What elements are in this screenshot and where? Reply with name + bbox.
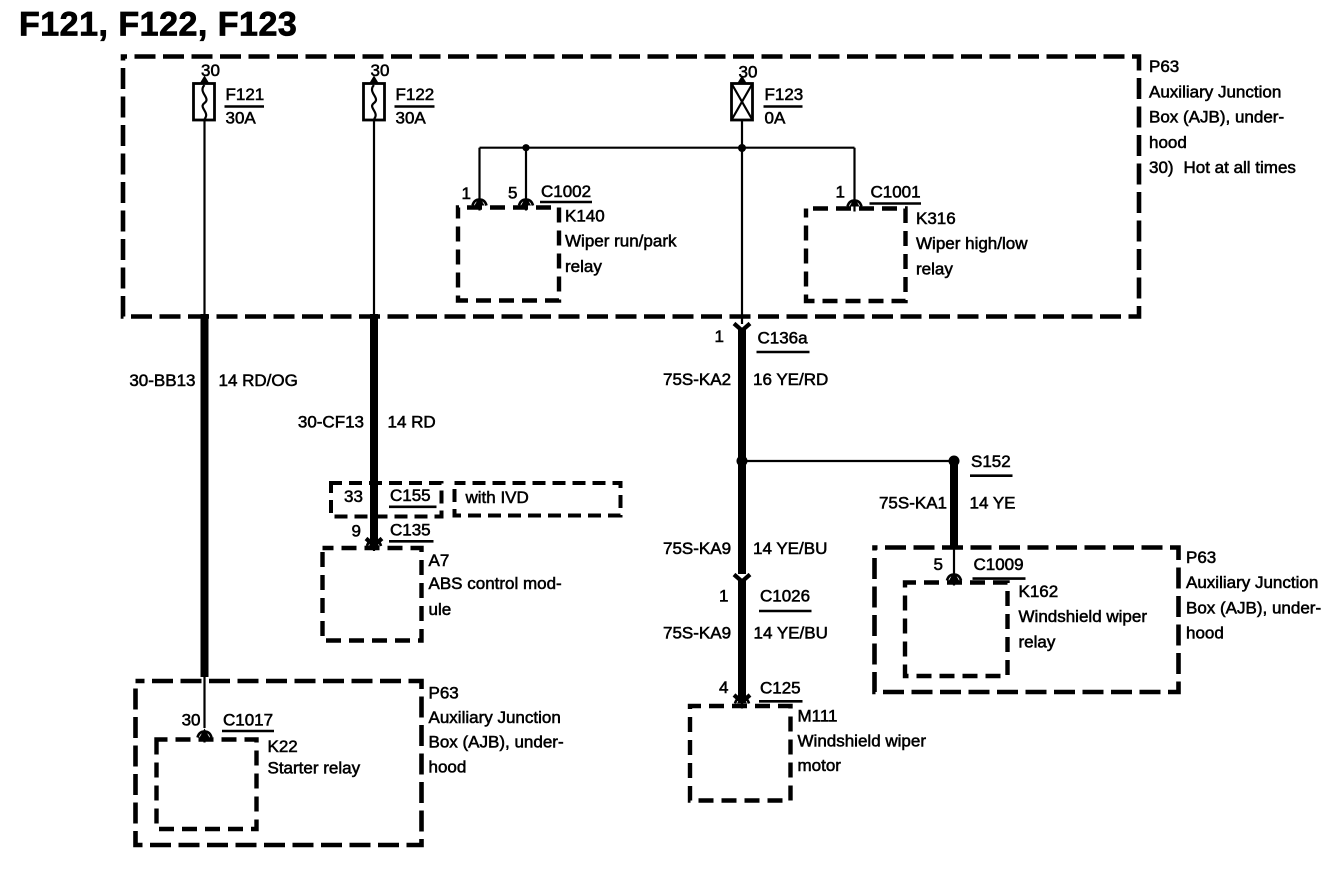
underline C1026 [759, 610, 812, 613]
svg-text:P63: P63 [429, 683, 459, 702]
fuse F122 [364, 84, 385, 121]
note P63 (bottom left) [429, 683, 564, 776]
svg-text:C1017: C1017 [223, 711, 273, 730]
module A7 box [323, 548, 422, 641]
underline C155 [389, 505, 437, 508]
underline F122 [395, 105, 435, 108]
svg-text:75S-KA9: 75S-KA9 [663, 539, 731, 558]
wire F122 to AJB bottom edge (thin) [373, 120, 375, 316]
connector C125 pin 4 symbol [734, 695, 750, 702]
wire 75S-KA9 thick lower [738, 580, 746, 698]
svg-text:75S-KA1: 75S-KA1 [879, 493, 947, 512]
junction dot at F123 column [738, 144, 746, 152]
connector C155 box [331, 483, 442, 517]
svg-text:5: 5 [508, 184, 517, 203]
svg-text:30-CF13: 30-CF13 [298, 413, 364, 432]
underline C1001 [870, 202, 922, 205]
wire to C1002 pin 5 [525, 148, 527, 200]
svg-text:Hot at all times: Hot at all times [1184, 158, 1296, 177]
wire bus horizontal inside AJB [480, 147, 855, 149]
svg-text:Wiper high/low: Wiper high/low [916, 234, 1028, 253]
svg-text:A7: A7 [429, 551, 450, 570]
underline C1002 [540, 201, 592, 204]
wire to C1002 pin 1 [478, 148, 480, 200]
svg-text:hood: hood [1186, 624, 1224, 643]
svg-text:F121: F121 [226, 85, 265, 104]
connector C136a flare [734, 324, 750, 331]
svg-text:Auxiliary Junction: Auxiliary Junction [429, 708, 561, 727]
underline C136a [757, 351, 810, 354]
connector C1009 pin 5 symbol [947, 572, 961, 586]
svg-text:P63: P63 [1149, 57, 1179, 76]
svg-text:0A: 0A [765, 109, 786, 128]
underline F121 [225, 105, 265, 108]
connector C1001 pin 1 symbol [848, 198, 862, 212]
svg-text:Auxiliary Junction: Auxiliary Junction [1149, 82, 1281, 101]
svg-text:Box (AJB), under-: Box (AJB), under- [1149, 108, 1284, 127]
wire to C1001 pin 1 [853, 148, 855, 200]
connector C1002 pin 1 symbol [473, 197, 487, 211]
svg-text:Box (AJB), under-: Box (AJB), under- [1186, 598, 1321, 617]
svg-text:relay: relay [565, 257, 602, 276]
wire into starter relay box (thin) [203, 675, 205, 728]
wire 30-BB13 thick [201, 314, 209, 677]
box P63 Auxiliary Junction Box (AJB) underhood (outer dashed) [123, 57, 1139, 317]
svg-text:C1009: C1009 [974, 555, 1024, 574]
svg-text:ule: ule [429, 600, 452, 619]
fuse F123 terminal 30 arrow [737, 76, 748, 85]
svg-text:30: 30 [182, 711, 201, 730]
svg-text:C1026: C1026 [760, 587, 810, 606]
relay K140 box [458, 208, 559, 301]
wire F121 to AJB bottom edge (thin) [203, 120, 205, 316]
underline C135 [389, 540, 434, 543]
svg-text:C136a: C136a [758, 329, 809, 348]
svg-text:F122: F122 [396, 85, 435, 104]
svg-text:30: 30 [371, 61, 390, 80]
svg-text:14 YE/BU: 14 YE/BU [753, 539, 827, 558]
svg-text:hood: hood [429, 757, 467, 776]
svg-text:K22: K22 [268, 737, 298, 756]
svg-text:relay: relay [916, 259, 953, 278]
connector C1026 flare [734, 575, 750, 582]
svg-text:Windshield wiper: Windshield wiper [798, 731, 927, 750]
svg-text:K162: K162 [1019, 582, 1059, 601]
svg-text:Starter relay: Starter relay [268, 759, 361, 778]
wire 75S-KA1 thick [950, 461, 958, 547]
svg-text:Auxiliary Junction: Auxiliary Junction [1186, 573, 1318, 592]
svg-text:1: 1 [719, 586, 728, 605]
svg-text:C1001: C1001 [871, 183, 921, 202]
svg-text:1: 1 [836, 183, 845, 202]
wire 75S-KA2 thick [738, 329, 746, 574]
svg-text:14 YE: 14 YE [970, 493, 1016, 512]
wire 30-CF13 thick [370, 314, 378, 541]
svg-text:relay: relay [1019, 632, 1056, 651]
svg-text:ABS control mod-: ABS control mod- [429, 574, 562, 593]
underline S152 [970, 474, 1013, 477]
wire 75S-KA1 thin into AJB [953, 547, 955, 575]
svg-text:16 YE/RD: 16 YE/RD [753, 370, 828, 389]
svg-text:1: 1 [462, 184, 471, 203]
svg-text:30-BB13: 30-BB13 [129, 371, 195, 390]
svg-text:C155: C155 [390, 486, 431, 505]
svg-text:C125: C125 [760, 678, 801, 697]
svg-text:K140: K140 [565, 207, 605, 226]
svg-text:P63: P63 [1186, 548, 1216, 567]
svg-text:Wiper run/park: Wiper run/park [565, 232, 677, 251]
relay K316 box [806, 209, 906, 302]
fuse F121 [194, 84, 215, 121]
svg-text:30A: 30A [396, 109, 427, 128]
svg-text:with IVD: with IVD [465, 488, 529, 507]
underline C125 [759, 700, 803, 703]
box P63 AJB underhood (right) [875, 548, 1179, 693]
fuse F123 [732, 84, 753, 121]
motor M111 box [690, 706, 791, 801]
junction dot splice left [737, 456, 748, 467]
fuse F121 terminal 30 arrow [199, 76, 210, 85]
svg-text:9: 9 [352, 522, 361, 541]
svg-text:75S-KA2: 75S-KA2 [663, 370, 731, 389]
relay K162 box [905, 583, 1008, 677]
svg-text:motor: motor [798, 756, 842, 775]
svg-text:C135: C135 [390, 520, 431, 539]
underline F123 [764, 105, 803, 108]
svg-text:75S-KA9: 75S-KA9 [663, 623, 731, 642]
connector C1002 pin 5 symbol [519, 197, 533, 211]
svg-text:K316: K316 [916, 209, 956, 228]
svg-text:M111: M111 [798, 707, 838, 726]
note P63 (right) [1186, 548, 1321, 643]
note P63 (top right) [1149, 57, 1296, 177]
with IVD box [455, 483, 621, 516]
underline C1017 [222, 730, 274, 733]
relay K22 box [157, 740, 257, 830]
wire F123 down through AJB bottom (thin) [741, 120, 743, 324]
connector C135 pin 9 symbol [366, 539, 382, 546]
svg-text:F123: F123 [765, 85, 804, 104]
svg-text:30A: 30A [226, 109, 257, 128]
svg-text:30: 30 [739, 63, 758, 82]
svg-text:C1002: C1002 [541, 182, 591, 201]
svg-text:S152: S152 [971, 452, 1011, 471]
svg-text:30: 30 [201, 61, 220, 80]
svg-text:4: 4 [719, 678, 728, 697]
junction dot S152 [949, 456, 960, 467]
svg-text:Windshield wiper: Windshield wiper [1019, 607, 1148, 626]
underline C1009 [973, 577, 1026, 580]
junction dot at pin5 column [522, 144, 529, 151]
svg-text:hood: hood [1149, 133, 1187, 152]
svg-text:33: 33 [344, 487, 363, 506]
svg-text:Box (AJB), under-: Box (AJB), under- [429, 733, 564, 752]
connector C1017 pin 30 symbol [198, 729, 212, 743]
svg-text:14 RD: 14 RD [388, 413, 436, 432]
fuse F122 terminal 30 arrow [369, 76, 380, 85]
box P63 AJB underhood (bottom left) [136, 681, 422, 845]
svg-text:5: 5 [934, 555, 943, 574]
svg-text:F121, F122, F123: F121, F122, F123 [19, 6, 297, 44]
wire to S152 [742, 460, 954, 462]
svg-text:14 RD/OG: 14 RD/OG [219, 371, 298, 390]
svg-text:30): 30) [1149, 158, 1174, 177]
svg-text:14 YE/BU: 14 YE/BU [754, 623, 828, 642]
svg-text:1: 1 [715, 327, 724, 346]
